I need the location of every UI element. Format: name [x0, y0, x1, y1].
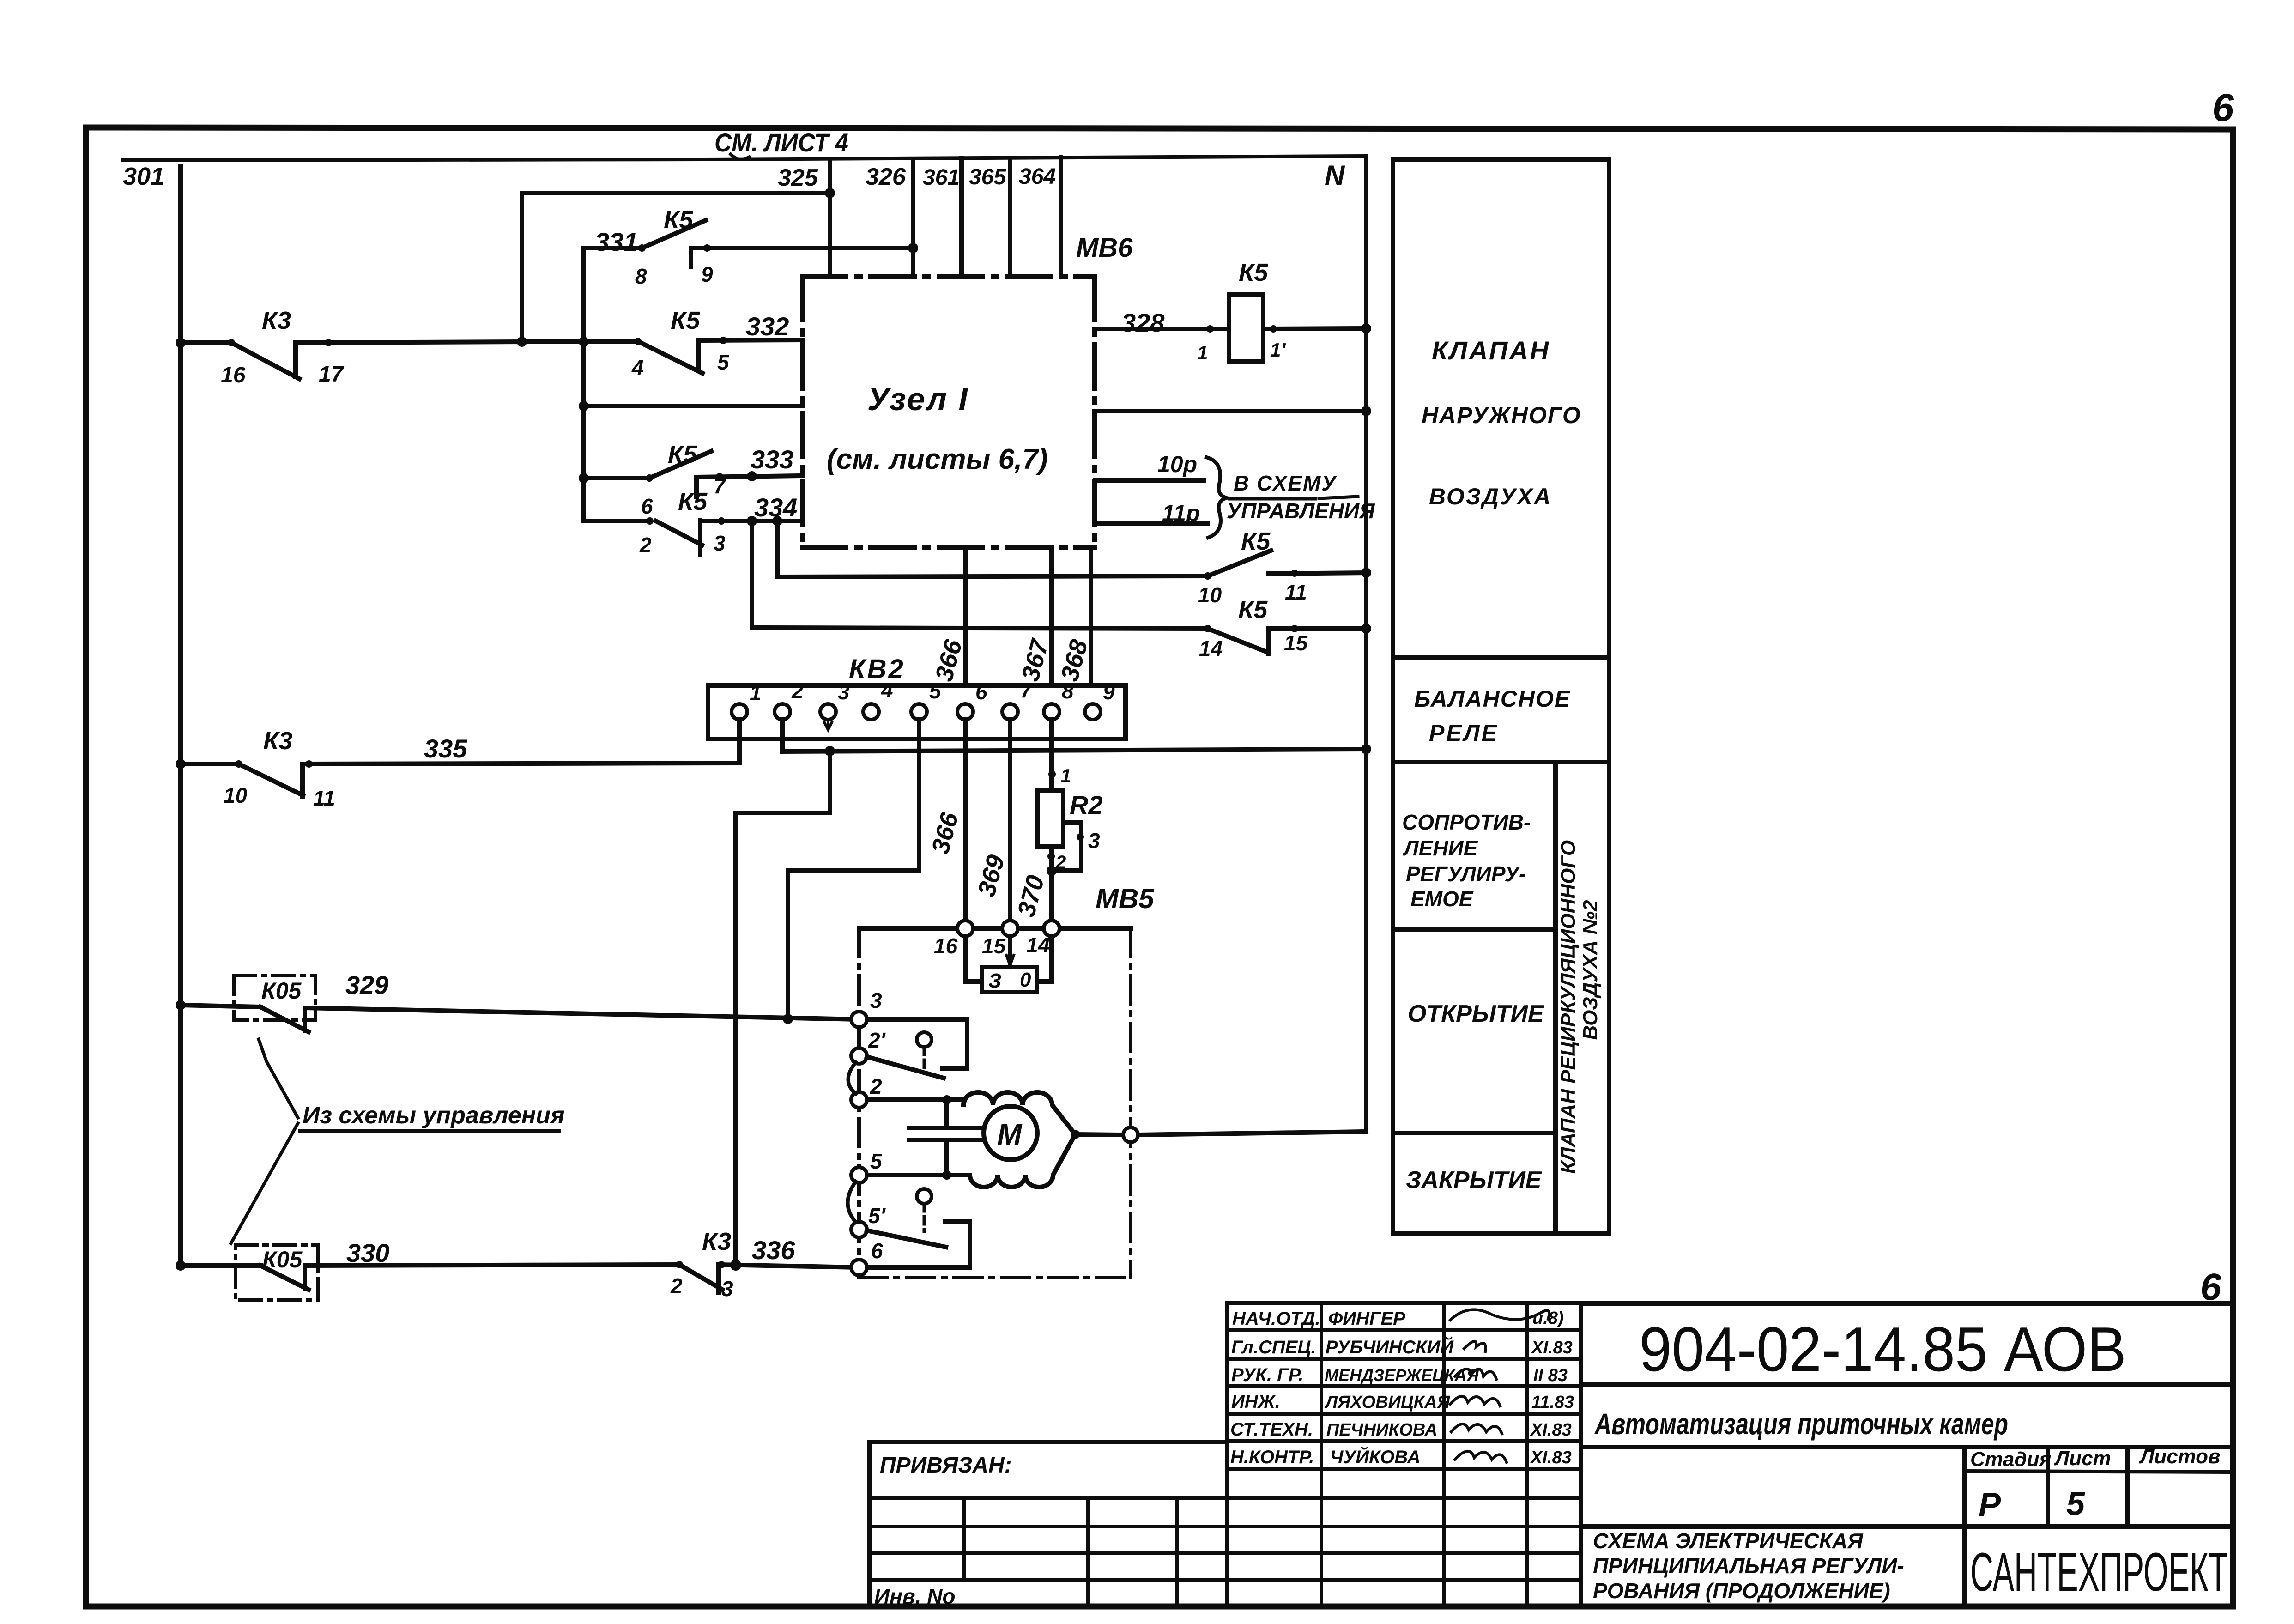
sheet number 6 above title block [2200, 1266, 2222, 1308]
wire 366 drop from Узел I [963, 547, 968, 704]
wire 16 to selector [965, 936, 982, 982]
svg-text:К3: К3 [702, 1228, 731, 1255]
terminal 5 (actuator) [851, 1167, 867, 1183]
resistor R2 [1038, 791, 1063, 847]
wire 361 vertical drop [959, 158, 964, 276]
label 336 [752, 1236, 795, 1265]
label Узел I [867, 381, 969, 417]
label МВ5 [1096, 883, 1155, 914]
sheet number 6 top right [2212, 86, 2234, 129]
contact K3 16-17 [176, 338, 522, 379]
label N [1325, 160, 1345, 191]
label К3 (16-17) [262, 307, 291, 334]
label 331 [595, 227, 638, 256]
svg-text:ФИНГЕР: ФИНГЕР [1328, 1309, 1405, 1329]
svg-text:365: 365 [969, 165, 1006, 189]
signature table names [1324, 1309, 1479, 1467]
svg-text:Гл.СПЕЦ.: Гл.СПЕЦ. [1231, 1337, 1316, 1357]
svg-text:ПРИНЦИПИАЛЬНАЯ РЕГУЛИ-: ПРИНЦИПИАЛЬНАЯ РЕГУЛИ- [1593, 1554, 1904, 1578]
label К05 upper [261, 978, 302, 1004]
panel inner vertical [1553, 762, 1558, 1233]
svg-text:6: 6 [975, 680, 987, 704]
label Клапан рециркуляционного воздуха №2 (rotated) [1557, 840, 1602, 1174]
svg-text:2: 2 [670, 1274, 683, 1298]
label 2 (actuator) [870, 1074, 882, 1098]
pin numbers 1-9 [750, 678, 1115, 705]
svg-text:КЛАПАН РЕЦИРКУЛЯЦИОННОГО: КЛАПАН РЕЦИРКУЛЯЦИОННОГО [1557, 840, 1580, 1174]
relay box КО5 lower (dash-dot) [236, 1245, 318, 1300]
svg-text:361: 361 [923, 165, 960, 190]
block Узел I (dash-dot box) [802, 276, 1095, 547]
svg-text:САНТЕХПРОЕКТ: САНТЕХПРОЕКТ [1970, 1542, 2228, 1603]
label К5 (6-7) [668, 441, 697, 468]
svg-text:ПРИВЯЗАН:: ПРИВЯЗАН: [880, 1453, 1012, 1478]
wire coil to N [1263, 323, 1371, 333]
svg-text:В СХЕМУ: В СХЕМУ [1234, 471, 1338, 495]
wire K3-17 to K5 4 [517, 337, 638, 347]
title block line above bottom row [1581, 1524, 2233, 1529]
svg-text:II 83: II 83 [1533, 1366, 1568, 1385]
wire 370 R2 to MB5-14 [1047, 847, 1055, 921]
label ПРИВЯЗАН: [880, 1453, 1012, 1478]
svg-text:1: 1 [1060, 765, 1071, 787]
actuator MB5 enclosure (dash-dot) [859, 928, 1131, 1278]
wire 368 drop from Узел I [1089, 547, 1093, 704]
pin label 1 (R2 top) [1060, 765, 1071, 787]
pin label 2 (K3) [670, 1274, 683, 1298]
pin label 3 (R2) [1088, 829, 1100, 853]
svg-text:КВ2: КВ2 [849, 654, 905, 684]
svg-text:НАРУЖНОГО: НАРУЖНОГО [1422, 402, 1581, 428]
wire stub 10р [1096, 478, 1204, 483]
panel divider 2 [1393, 760, 1609, 764]
connector КВ2 box [708, 685, 1126, 739]
svg-text:5: 5 [2066, 1485, 2085, 1522]
terminal 15 [1002, 921, 1018, 936]
svg-text:15: 15 [1284, 631, 1308, 655]
pin label 2 (R2 bottom) [1055, 852, 1066, 873]
contact K5 2-3 on wire 334 [584, 516, 802, 554]
svg-text:331: 331 [595, 227, 638, 256]
label R2 [1070, 790, 1103, 819]
limit switch upper: pushbutton [917, 1032, 932, 1071]
wire Узел I mid output to N [1095, 406, 1371, 416]
svg-text:СТ.ТЕХН.: СТ.ТЕХН. [1230, 1419, 1313, 1440]
label 332 [746, 312, 789, 341]
pin label 10 (K5) [1198, 583, 1222, 607]
contact K5 6-7 on wire 333 [584, 451, 802, 497]
terminal 16 [957, 921, 973, 936]
wire top supply bus (см. лист 4) [123, 156, 1366, 160]
svg-text:МВ5: МВ5 [1096, 883, 1155, 914]
label 370 [1012, 873, 1050, 920]
svg-text:К5: К5 [678, 488, 708, 515]
relay box КО5 upper (dash-dot) [234, 976, 315, 1020]
wire row into Узел I (middle input) [584, 404, 802, 408]
contact K5 14-15 [752, 521, 1371, 654]
pin label 16 [221, 363, 246, 388]
label 326 [866, 164, 906, 190]
pin label 5 [717, 350, 730, 374]
label К5 (2-3) [678, 488, 708, 515]
svg-text:ЛЕНИЕ: ЛЕНИЕ [1403, 836, 1478, 860]
svg-text:3: 3 [714, 531, 726, 555]
label Инв. № [874, 1584, 956, 1608]
svg-text:14: 14 [1199, 636, 1223, 661]
svg-text:5': 5' [868, 1204, 886, 1228]
label КВ2 [849, 654, 905, 684]
contact K5 8-9 on wire 331 [584, 220, 918, 267]
label Листов [2139, 1445, 2221, 1468]
label Автоматизация приточных камер [1594, 1407, 2008, 1441]
svg-text:904-02-14.85 АОВ: 904-02-14.85 АОВ [1639, 1314, 2126, 1384]
signature squiggles [1450, 1309, 1549, 1462]
wire pin1 to 335 [737, 720, 742, 763]
limit switch lower: arm from 5' [867, 1230, 946, 1247]
label К3 (2-3) [702, 1228, 731, 1255]
label К5 (4-5) [671, 307, 700, 334]
pin label 11 (K5) [1285, 580, 1307, 604]
svg-text:332: 332 [746, 312, 789, 341]
svg-text:НАЧ.ОТД.: НАЧ.ОТД. [1232, 1309, 1320, 1329]
svg-text:ЧУЙКОВА: ЧУЙКОВА [1330, 1446, 1421, 1467]
terminal 6 (actuator) [851, 1260, 867, 1275]
svg-text:ХI.83: ХI.83 [1531, 1338, 1573, 1357]
coil K5 [1229, 294, 1263, 361]
svg-text:ЗАКРЫТИЕ: ЗАКРЫТИЕ [1406, 1167, 1542, 1194]
title block line under 904 row [1581, 1382, 2233, 1387]
arrow from 15 into selector [1006, 936, 1014, 965]
svg-text:К5: К5 [1239, 259, 1268, 286]
svg-text:1: 1 [1197, 342, 1208, 364]
svg-text:3: 3 [870, 988, 882, 1012]
svg-text:БАЛАНСНОЕ: БАЛАНСНОЕ [1414, 686, 1571, 712]
svg-text:Узел I: Узел I [867, 381, 969, 417]
svg-text:11: 11 [313, 786, 335, 810]
wire 14 to selector [1037, 936, 1052, 982]
svg-text:Инв. No: Инв. No [874, 1584, 956, 1608]
svg-text:К5: К5 [1238, 596, 1268, 624]
label К5 (coil) [1239, 259, 1268, 286]
svg-text:335: 335 [424, 734, 467, 763]
svg-text:ЛЯХОВИЦКАЯ: ЛЯХОВИЦКАЯ [1324, 1393, 1450, 1412]
pin label 1 (coil left) [1197, 342, 1208, 364]
svg-text:З: З [988, 970, 1001, 992]
pin label 8 [635, 264, 647, 288]
svg-text:К5: К5 [1241, 527, 1271, 555]
label Сопротивление регулируемое [1402, 810, 1531, 911]
label К5 (10-11) [1241, 527, 1271, 555]
label Схема электрическая принципиальная регулирования [1593, 1529, 1904, 1603]
wire branch up to 325 [522, 188, 835, 342]
svg-text:К3: К3 [262, 307, 291, 334]
node 301 left supply bus [178, 166, 183, 1266]
svg-text:11.83: 11.83 [1531, 1393, 1574, 1412]
labels З 0 in selector [988, 969, 1031, 992]
mechanical link 2'-2 [848, 1062, 856, 1094]
label Из схемы управления with leaders [231, 1039, 559, 1243]
label 366 (lower) [926, 809, 964, 857]
label 2' [868, 1028, 886, 1052]
wire 335 with contact K3 10-11 [176, 759, 739, 796]
svg-text:9: 9 [701, 262, 713, 286]
svg-text:10р: 10р [1157, 451, 1197, 477]
svg-text:Лист: Лист [2054, 1447, 2111, 1470]
motor lower winding [970, 1134, 1075, 1187]
привязан table grid [870, 1498, 1227, 1606]
terminal 3 (actuator) [851, 1012, 867, 1027]
svg-text:РЕГУЛИРУ-: РЕГУЛИРУ- [1406, 862, 1526, 886]
svg-text:16: 16 [934, 934, 958, 958]
svg-text:ВОЗДУХА №2: ВОЗДУХА №2 [1579, 900, 1602, 1040]
svg-text:14: 14 [1026, 933, 1050, 957]
привязан table frame [870, 1442, 1227, 1606]
svg-text:R2: R2 [1070, 790, 1103, 819]
svg-text:6: 6 [2212, 86, 2234, 129]
label 333 [751, 445, 793, 474]
wire 367 pin8 to R2 [1048, 720, 1056, 791]
terminal 14 [1044, 921, 1059, 936]
wire 364 vertical drop [1059, 158, 1063, 276]
svg-text:2: 2 [639, 533, 652, 557]
svg-text:6: 6 [871, 1239, 883, 1263]
signature table frame [1227, 1303, 1581, 1606]
svg-text:329: 329 [345, 970, 388, 1000]
signature table dates [1530, 1309, 1574, 1467]
value Р [1979, 1486, 2001, 1523]
label 368 (upper) [1056, 637, 1093, 685]
contact K5 10-11 [777, 521, 1371, 580]
contact K5 4-5 on wire 332 [634, 337, 802, 373]
leader hook under СМ.ЛИСТ 4 [731, 154, 749, 159]
label Клапан наружного воздуха [1422, 336, 1581, 509]
wire pin2 to N [782, 720, 1371, 756]
svg-text:СОПРОТИВ-: СОПРОТИВ- [1402, 810, 1531, 834]
svg-text:ХI.83: ХI.83 [1530, 1448, 1572, 1467]
label 335 [424, 734, 467, 763]
svg-text:10: 10 [1198, 583, 1222, 607]
label 325 [778, 164, 818, 191]
svg-text:МВ6: МВ6 [1076, 233, 1133, 263]
pin label 2 [639, 533, 652, 557]
svg-text:3: 3 [1088, 829, 1100, 853]
panel divider 1 [1393, 655, 1609, 660]
svg-text:325: 325 [778, 164, 818, 191]
svg-text:ИНЖ.: ИНЖ. [1231, 1392, 1280, 1412]
svg-text:5: 5 [870, 1149, 883, 1173]
terminal 2 [851, 1092, 867, 1108]
svg-text:2: 2 [1055, 852, 1066, 873]
svg-text:СМ. ЛИСТ 4: СМ. ЛИСТ 4 [714, 128, 848, 157]
label (см. листы 6,7) [827, 443, 1048, 475]
svg-text:7: 7 [714, 474, 726, 498]
svg-text:К3: К3 [263, 727, 292, 755]
label Стадия [1970, 1448, 2051, 1471]
label 329 [345, 970, 388, 1000]
svg-text:4: 4 [881, 678, 893, 702]
svg-text:РОВАНИЯ (ПРОДОЛЖЕНИЕ): РОВАНИЯ (ПРОДОЛЖЕНИЕ) [1593, 1579, 1890, 1603]
svg-text:Автоматизация приточных каме: Автоматизация приточных камер [1594, 1407, 2008, 1441]
label 5' [868, 1204, 886, 1228]
wire from 2 to motor winding [867, 1095, 963, 1104]
brace to В СХЕМУ УПРАВЛЕНИЯ [1206, 457, 1227, 538]
label 330 [346, 1238, 389, 1267]
label 369 [973, 852, 1010, 900]
title block line under name row [1581, 1445, 2233, 1449]
wire 329 with K05 contact [176, 1000, 859, 1032]
label В СХЕМУ УПРАВЛЕНИЯ [1227, 471, 1375, 523]
limit switch upper: fixed contact from 3 [867, 1019, 967, 1068]
wire motor to N [1071, 1130, 1366, 1139]
pin label 6 [641, 494, 653, 518]
panel divider 4 [1393, 1131, 1556, 1135]
boundary terminal on MB5 edge [1123, 1127, 1138, 1142]
wire stub 11р [1096, 521, 1207, 526]
function panel box [1393, 159, 1609, 1233]
label 301 [123, 163, 164, 190]
panel divider 3 [1393, 927, 1556, 932]
label 6 (actuator) [871, 1239, 883, 1263]
svg-text:16: 16 [221, 363, 246, 388]
limit switch upper: arm from 2' [867, 1057, 944, 1078]
wiper arrow under pin 3 [824, 721, 832, 730]
wiper loop of R2 with pin 3 [1047, 823, 1084, 876]
svg-text:2: 2 [870, 1074, 882, 1098]
label 5 (actuator) [870, 1149, 883, 1173]
signature table columns [1321, 1303, 1527, 1606]
svg-text:11: 11 [1285, 580, 1307, 604]
selector box З-0 [982, 967, 1037, 992]
label СМ. ЛИСТ 4 [714, 128, 848, 157]
pin label 4 [631, 356, 644, 380]
connector pins 1-9 [732, 704, 1101, 720]
wire from 5 to motor winding [867, 1173, 970, 1177]
svg-text:К5: К5 [668, 441, 697, 468]
svg-text:1': 1' [1270, 339, 1286, 361]
label 361 [923, 165, 960, 190]
pin label 1' (coil right) [1270, 339, 1286, 361]
svg-text:Н.КОНТР.: Н.КОНТР. [1230, 1447, 1314, 1467]
svg-text:364: 364 [1019, 164, 1056, 189]
wire 326 vertical drop [911, 159, 915, 276]
contact K3 2-3 on wire 336 [676, 1260, 859, 1292]
svg-text:М: М [997, 1118, 1023, 1151]
svg-text:326: 326 [866, 164, 906, 190]
label Закрытие [1406, 1167, 1542, 1194]
underline В СХЕМУ [1229, 497, 1358, 499]
svg-text:7: 7 [1020, 678, 1033, 702]
terminal 2' [851, 1048, 867, 1064]
terminal 5' [851, 1222, 867, 1237]
svg-text:ЕМОЕ: ЕМОЕ [1410, 887, 1474, 911]
svg-text:2': 2' [868, 1028, 886, 1052]
svg-text:328: 328 [1121, 308, 1165, 337]
pin label 10 [224, 783, 248, 807]
wire pin5 to 329 [788, 720, 919, 1019]
svg-text:3: 3 [721, 1277, 733, 1301]
label МВ6 [1076, 233, 1133, 263]
svg-text:N: N [1325, 160, 1345, 191]
label 365 [969, 165, 1006, 189]
svg-text:4: 4 [631, 356, 644, 380]
title block verticals [1964, 1447, 2127, 1606]
svg-text:ХI.83: ХI.83 [1530, 1420, 1572, 1440]
svg-text:0: 0 [1020, 969, 1031, 991]
svg-text:9: 9 [1103, 680, 1115, 704]
svg-text:Стадия: Стадия [1970, 1448, 2051, 1471]
svg-text:К5: К5 [671, 307, 700, 334]
svg-text:(см. листы 6,7): (см. листы 6,7) [827, 443, 1048, 475]
pin label 17 [319, 362, 345, 387]
svg-text:КЛАПАН: КЛАПАН [1432, 336, 1550, 365]
label 364 [1019, 164, 1056, 189]
label 328 [1121, 308, 1165, 337]
svg-text:17: 17 [319, 362, 345, 387]
capacitor [909, 1100, 984, 1180]
svg-text:301: 301 [123, 163, 164, 190]
title block stadia header line [1964, 1471, 2233, 1472]
limit switch lower: fixed contact from 6 [867, 1222, 970, 1267]
pin label 9 [701, 262, 713, 286]
wire 366 pin6 to MB5-16 [963, 720, 968, 921]
svg-text:11р: 11р [1162, 500, 1200, 526]
label 366 (upper) [930, 636, 968, 684]
svg-text:330: 330 [346, 1238, 389, 1267]
wire 325 vertical drop [828, 159, 832, 276]
svg-text:ПЕЧНИКОВА: ПЕЧНИКОВА [1326, 1420, 1437, 1440]
label 334 [754, 493, 797, 522]
svg-text:10: 10 [224, 783, 248, 807]
label 3 (actuator) [870, 988, 882, 1012]
label 367 (upper) [1017, 636, 1054, 684]
label Открытие [1408, 1000, 1544, 1027]
wire feeder vertical (rows 331/879/333/334) [579, 248, 589, 521]
svg-text:Р: Р [1979, 1486, 2001, 1523]
pin label 14 [1199, 636, 1223, 661]
label Лист [2054, 1447, 2111, 1470]
svg-text:15: 15 [982, 934, 1006, 958]
svg-text:и.8): и.8) [1532, 1309, 1564, 1328]
signature table rows [1227, 1330, 1581, 1580]
label К05 lower [262, 1247, 303, 1273]
label К5 (14-15) [1238, 596, 1268, 624]
svg-text:5: 5 [717, 350, 730, 374]
svg-text:СХЕМА ЭЛЕКТРИЧЕСКАЯ: СХЕМА ЭЛЕКТРИЧЕСКАЯ [1593, 1529, 1864, 1553]
wire 367 drop from Узел I [1049, 547, 1054, 704]
value 5 [2066, 1485, 2085, 1522]
svg-text:РУБЧИНСКИЙ: РУБЧИНСКИЙ [1326, 1336, 1454, 1357]
terminal labels 16 15 14 [934, 933, 1050, 958]
pin label 3 (K3) [721, 1277, 733, 1301]
wire 328 from Узел I to K5 coil [1095, 325, 1229, 333]
label М in motor [997, 1118, 1023, 1151]
svg-text:Листов: Листов [2139, 1445, 2221, 1468]
svg-text:334: 334 [754, 493, 797, 522]
label 11р [1162, 500, 1200, 526]
pin label 11 [313, 786, 335, 810]
mechanical link 5-5' [848, 1182, 856, 1222]
svg-text:РЕЛЕ: РЕЛЕ [1429, 720, 1499, 746]
motor upper winding [963, 1092, 1075, 1134]
wire pin2-branch down to 336 [736, 751, 830, 1265]
svg-text:РУК. ГР.: РУК. ГР. [1231, 1365, 1303, 1385]
pin label 7 [714, 474, 726, 498]
pin label 15 [1284, 631, 1308, 655]
svg-text:3: 3 [838, 680, 850, 704]
wire 330 with K05 contact [176, 1260, 679, 1290]
svg-text:К5: К5 [664, 206, 693, 234]
node N bus (right vertical) [1364, 156, 1368, 1132]
